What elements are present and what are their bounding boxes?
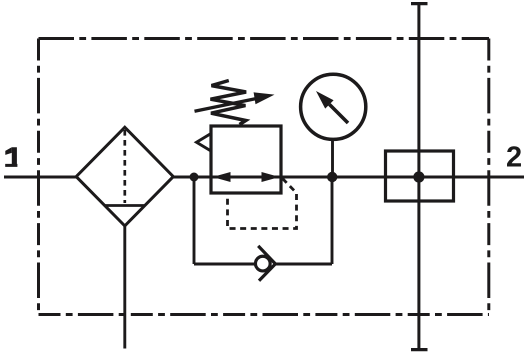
shutoff valve box <box>386 151 454 201</box>
wire: main flow line left (port 1 to filter) <box>4 176 76 179</box>
enclosure dash-dot border left <box>37 39 40 316</box>
node C (shutoff valve center) <box>413 171 424 182</box>
regulator adjustment arrowhead <box>254 92 275 104</box>
wire: bypass bottom right <box>275 263 332 266</box>
regulator relief triangle <box>197 134 212 152</box>
bottom end cap <box>411 348 428 351</box>
enclosure dash-dot border top <box>39 37 490 40</box>
filter element dashed line <box>123 130 126 203</box>
regulator spring <box>211 81 247 125</box>
filter diamond body <box>76 127 173 226</box>
wire: bypass left vertical <box>193 177 196 264</box>
node A (filter outlet junction) <box>190 173 199 182</box>
enclosure dash-dot border bottom <box>39 313 490 316</box>
regulator flow arrow right <box>262 172 280 182</box>
pressure gauge dial <box>301 74 366 139</box>
wire: vertical actuation line <box>417 4 420 350</box>
wire: main flow line right (filter to port 2) <box>173 176 524 179</box>
regulator flow arrow left <box>213 172 231 182</box>
regulator pilot dashed line <box>228 179 297 229</box>
wire: bypass bottom left <box>194 263 255 266</box>
gauge needle arrowhead <box>316 91 334 109</box>
wire: bypass right vertical <box>331 177 334 264</box>
regulator adjustment arrow shaft <box>195 99 257 112</box>
wire: gauge stem <box>331 140 334 177</box>
top end cap <box>411 2 428 5</box>
node B (regulator outlet junction) <box>327 172 337 182</box>
check valve ball <box>255 256 270 271</box>
regulator body box <box>211 126 281 193</box>
wire: filter drain line <box>123 226 126 349</box>
port label 1 <box>5 147 17 167</box>
enclosure dash-dot border right <box>487 39 490 316</box>
filter condensate chord <box>105 204 145 207</box>
check valve seat <box>258 246 275 281</box>
svg-text:2: 2 <box>506 142 522 174</box>
gauge needle shaft <box>329 104 348 123</box>
